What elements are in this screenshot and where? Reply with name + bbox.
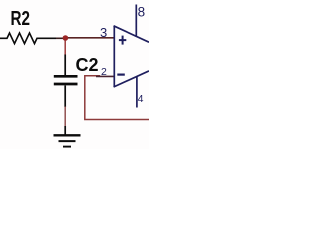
svg-text:8: 8 [138,5,146,20]
svg-text:4: 4 [138,93,144,105]
svg-text:2: 2 [101,66,107,78]
svg-text:R2: R2 [11,8,31,30]
svg-text:3: 3 [100,25,107,40]
svg-text:C2: C2 [76,55,99,75]
